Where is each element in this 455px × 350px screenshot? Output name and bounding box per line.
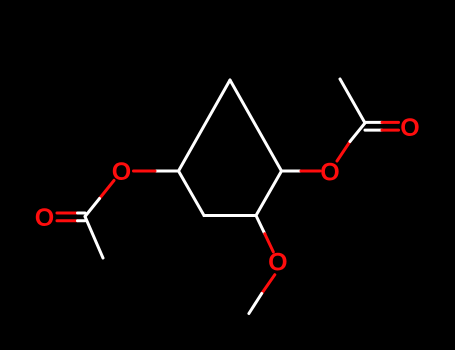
svg-text:O: O bbox=[112, 158, 131, 186]
bond O1-C1' red half bbox=[100, 180, 115, 198]
carbonyl C1'=O5 upper line red part bbox=[57, 212, 78, 215]
bond C1-O1 red half bbox=[134, 170, 156, 173]
ring bond C4-C5 (right to bottom-right) bbox=[256, 171, 282, 216]
ring bond C5-C6 (bottom edge) bbox=[204, 214, 256, 217]
methyl CH3 on C1' bbox=[85, 217, 103, 259]
carbonyl C2'=O4 upper line white part bbox=[365, 121, 382, 124]
carbonyl C2'=O4 lower line red part bbox=[382, 129, 399, 132]
bond O2-C2' white half bbox=[350, 123, 365, 142]
carbonyl C2'=O4 upper line red part bbox=[382, 121, 399, 124]
methyl CH3 on C2' bbox=[340, 79, 365, 123]
carbonyl C2'=O4 lower line white part bbox=[365, 129, 382, 132]
bond C4-O2 red half bbox=[301, 170, 320, 173]
bond C4-O2 white half bbox=[282, 170, 302, 173]
bond O3-CH3 red half bbox=[262, 275, 275, 294]
carbonyl C1'=O5 lower line white part bbox=[78, 219, 86, 222]
ring bond C6-C1 (bottom-left to left) bbox=[179, 171, 205, 216]
bond O3-CH3 white half (methoxy methyl) bbox=[249, 294, 262, 314]
svg-text:O: O bbox=[320, 158, 339, 186]
svg-text:O: O bbox=[268, 248, 287, 276]
bond O1-C1' white half bbox=[85, 199, 100, 217]
carbonyl C1'=O5 lower line red part bbox=[57, 219, 78, 222]
svg-text:O: O bbox=[400, 114, 419, 142]
ring bond C7-C4 (apex down to right vertex) bbox=[230, 80, 282, 171]
bond O2-C2' red half bbox=[337, 142, 350, 162]
ring bond C1-C7 (left vertex up to apex) bbox=[179, 80, 231, 171]
bond C5-O3 white half bbox=[256, 216, 265, 234]
carbonyl C1'=O5 upper line white part bbox=[78, 212, 86, 215]
bond C1-O1 white half bbox=[155, 170, 179, 173]
svg-text:O: O bbox=[35, 204, 54, 232]
bond C5-O3 red half bbox=[265, 234, 274, 252]
